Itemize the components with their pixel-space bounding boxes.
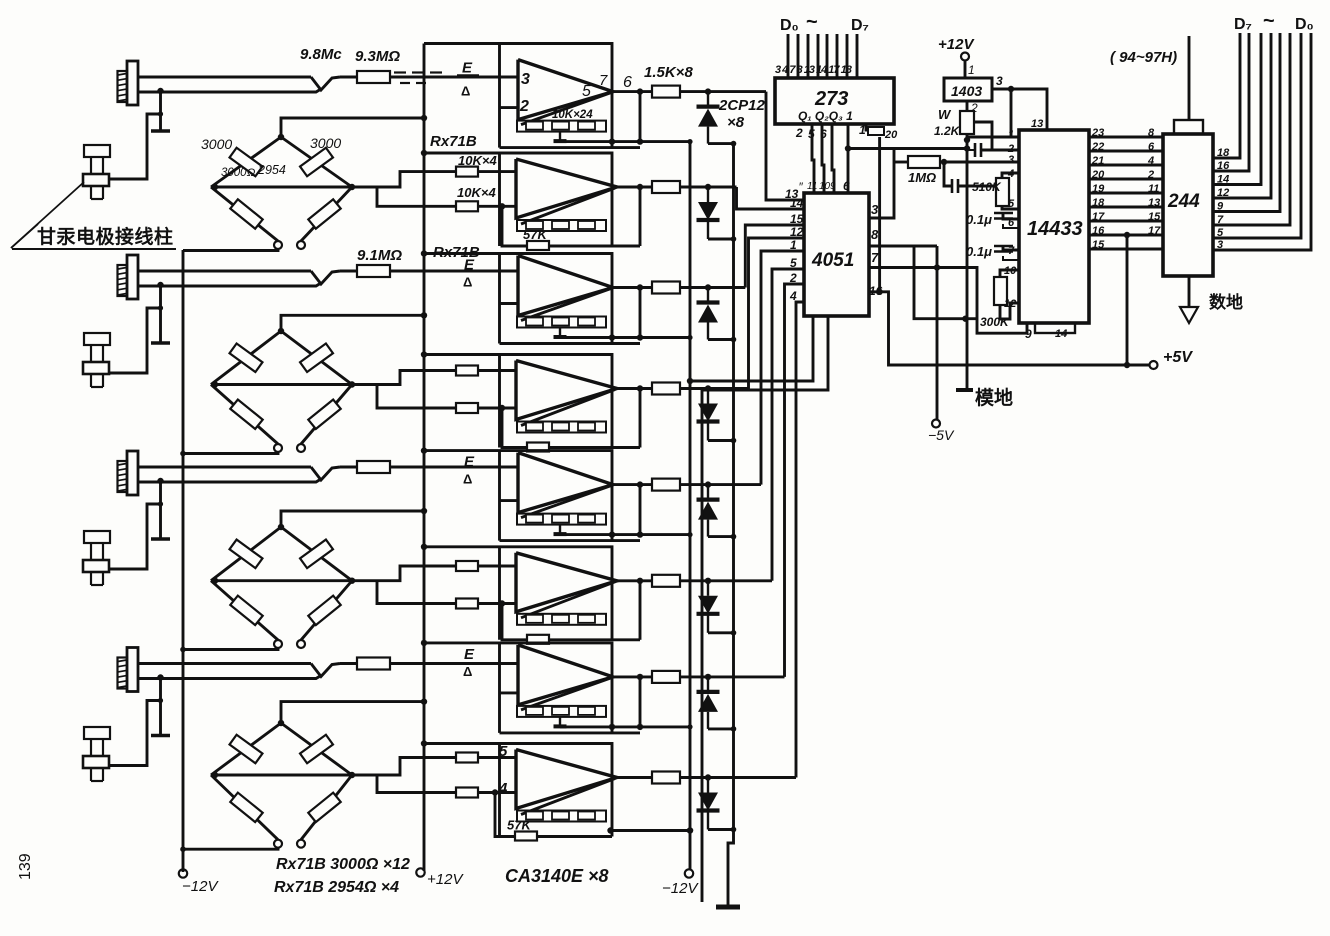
terminal -12V left xyxy=(179,869,187,877)
resistor input row 3 xyxy=(340,466,357,469)
svg-text:12: 12 xyxy=(1217,187,1229,199)
resistor 1.5K U8 xyxy=(652,772,680,784)
svg-text:E: E xyxy=(464,454,475,471)
svg-text:−5V: −5V xyxy=(928,427,955,443)
svg-text:Rx71B: Rx71B xyxy=(433,244,480,261)
svg-text:3: 3 xyxy=(996,74,1003,88)
wire D5 xyxy=(836,34,839,78)
wire 14433 pin 15 to 244 xyxy=(1089,248,1163,251)
op-amp U3 xyxy=(518,256,613,316)
op-amp U4 frame xyxy=(424,355,612,448)
svg-text:10: 10 xyxy=(819,181,831,192)
wire output riser U4 xyxy=(639,389,642,448)
svg-text:17: 17 xyxy=(1148,225,1161,237)
resistor 1.5K U2 xyxy=(652,181,680,193)
svg-text:6: 6 xyxy=(1148,141,1155,153)
svg-text:CA3140E ×8: CA3140E ×8 xyxy=(505,866,609,886)
svg-text:14: 14 xyxy=(1055,328,1067,340)
wire U1 inverting stub xyxy=(500,106,519,109)
ground tap feedback U7 xyxy=(559,717,561,727)
244 enable notch xyxy=(1174,120,1203,134)
diode D7 2CP12 xyxy=(707,677,709,692)
resistor 57K U2 xyxy=(527,241,549,250)
diode D5 2CP12 xyxy=(707,485,709,500)
pointer lines xyxy=(11,182,84,248)
svg-text:1: 1 xyxy=(968,63,975,77)
svg-text:2: 2 xyxy=(1147,169,1154,181)
wire diode to cathode bus U3 xyxy=(708,338,734,341)
svg-text:7: 7 xyxy=(1217,214,1224,226)
wire output to mux U4 xyxy=(680,387,749,390)
wire channel 5 to 4051 xyxy=(761,251,804,485)
wire 14433 pin 18 to 244 xyxy=(1089,206,1163,209)
svg-text:2: 2 xyxy=(789,271,797,285)
wire 244 pin 12 to D4 xyxy=(1213,33,1271,198)
wire crossover xyxy=(311,77,340,90)
resistor 1.5K U4 xyxy=(652,383,680,395)
frame left edge U8 xyxy=(498,744,501,837)
wire crossover xyxy=(311,664,340,677)
wire feedback tap U8 xyxy=(495,793,612,837)
svg-text:D₀: D₀ xyxy=(780,17,799,34)
svg-text:E: E xyxy=(462,60,473,77)
node diode junction U6 xyxy=(705,578,711,584)
svg-text:1.5K×8: 1.5K×8 xyxy=(644,64,693,81)
svg-text:21: 21 xyxy=(1091,155,1104,167)
op-amp U4 xyxy=(516,361,617,420)
svg-text:0.1μ: 0.1μ xyxy=(966,212,992,227)
wire negative rail tie U8 xyxy=(611,829,691,832)
wire channel 2 to 4051 xyxy=(737,187,805,209)
svg-text:10K×4: 10K×4 xyxy=(457,185,496,200)
feedback network U1 xyxy=(517,121,606,132)
svg-text:8: 8 xyxy=(871,227,879,242)
op-amp U1 frame xyxy=(424,44,612,148)
wire left supply bus xyxy=(182,250,185,872)
wire electrode pair top xyxy=(138,662,311,665)
wire apex to feedback U8 xyxy=(521,779,615,815)
wire apex to feedback U3 xyxy=(521,289,611,321)
wire electrode pair top xyxy=(138,76,311,79)
svg-text:Δ: Δ xyxy=(461,84,470,99)
diode D6 2CP12 xyxy=(707,581,709,596)
wire -5V branch xyxy=(936,246,939,419)
svg-text:8: 8 xyxy=(1148,127,1155,139)
reference electrode stem xyxy=(159,678,162,736)
resistor 300K xyxy=(1000,270,1019,277)
reference electrode stem xyxy=(159,91,162,131)
wire 244 pin 14 to D5 xyxy=(1213,33,1261,185)
frame bottom edge U5 xyxy=(500,539,641,542)
wire bridge 1 top to bus xyxy=(281,118,424,137)
resistor 10K input B U8 xyxy=(456,788,478,798)
svg-text:3000: 3000 xyxy=(310,135,341,151)
node diode junction U8 xyxy=(705,774,711,780)
wire 14433 pin 19 to 244 xyxy=(1089,192,1163,195)
svg-text:9.3MΩ: 9.3MΩ xyxy=(355,48,400,65)
svg-text:D₇: D₇ xyxy=(1234,16,1252,33)
svg-text:数地: 数地 xyxy=(1209,292,1243,312)
wire output riser U7 xyxy=(639,677,642,727)
wire output to mux U6 xyxy=(680,579,772,582)
wire negative rail xyxy=(689,143,692,831)
wire output riser U3 xyxy=(639,288,642,338)
wire 14433 pin 21 to 244 xyxy=(1089,164,1163,167)
wire feedback/V- line U5 xyxy=(560,533,690,536)
feedback network U6 xyxy=(517,614,606,625)
node diode junction U2 xyxy=(705,184,711,190)
wire feedback/V- line U7 xyxy=(560,725,690,728)
svg-text:模地: 模地 xyxy=(975,386,1013,409)
resistor 1.5K U7 xyxy=(652,671,680,683)
svg-text:2: 2 xyxy=(519,98,529,115)
resistor 10K input B U4 xyxy=(456,403,478,413)
svg-text:139: 139 xyxy=(17,853,34,880)
jumper pins1-20 273 xyxy=(866,124,868,130)
wire apex to feedback U5 xyxy=(521,486,611,518)
resistor input row 4 xyxy=(340,662,357,665)
svg-text:6: 6 xyxy=(623,74,632,91)
feedback network U4 xyxy=(517,422,606,433)
wire D2 xyxy=(807,34,810,78)
svg-text:510K: 510K xyxy=(972,180,1002,194)
wire 14433 pin 22 to 244 xyxy=(1089,150,1163,153)
frame bottom edge U7 xyxy=(500,731,641,734)
svg-text:3: 3 xyxy=(871,202,879,217)
wire channel 8 to 4051 xyxy=(796,302,804,778)
bridge 3 arm bottom-right xyxy=(301,581,352,640)
svg-text:7: 7 xyxy=(599,72,608,89)
bridge 3 arm bottom-left xyxy=(211,581,278,640)
svg-text:E: E xyxy=(464,646,475,663)
wire D1 xyxy=(797,34,800,78)
bridge 3 arm top-right xyxy=(281,527,352,581)
frame left edge U4 xyxy=(498,355,501,448)
wire feedback/V- line U3 xyxy=(560,336,690,339)
terminal -12V right xyxy=(685,869,693,877)
wire pot bottom xyxy=(966,134,969,390)
svg-text:9.1MΩ: 9.1MΩ xyxy=(357,247,402,264)
svg-text:18: 18 xyxy=(1092,197,1105,209)
wire U7 inverting stub xyxy=(500,691,519,694)
wire diode to cathode bus U8 xyxy=(708,828,734,831)
wire output U2 xyxy=(617,186,652,189)
svg-text:9.8Mc: 9.8Mc xyxy=(300,46,342,63)
wire bridge 4 left socket to supply xyxy=(183,848,278,850)
bridge 1 arm bottom-left xyxy=(211,187,278,241)
wire to binding post xyxy=(108,114,161,179)
diode D2 2CP12 xyxy=(707,187,709,202)
IC 4051 xyxy=(804,193,869,316)
svg-text:17: 17 xyxy=(1092,211,1105,223)
wire channel 3 to 4051 xyxy=(745,225,804,288)
wire electrode pair bottom xyxy=(138,89,321,92)
IC 1403 xyxy=(944,78,992,101)
wire negative rail to terminal xyxy=(689,831,692,870)
op-amp U2 frame xyxy=(424,153,612,246)
capacitor C1 xyxy=(967,149,974,151)
wire diode to cathode bus U4 xyxy=(708,439,734,442)
wire crossover xyxy=(311,467,340,480)
node diode junction U4 xyxy=(705,385,711,391)
svg-text:Rx71B 2954Ω ×4: Rx71B 2954Ω ×4 xyxy=(274,879,399,896)
svg-text:16: 16 xyxy=(1092,225,1105,237)
svg-text:3: 3 xyxy=(1008,154,1014,166)
svg-text:6: 6 xyxy=(1008,217,1015,229)
calomel electrode connector 1 xyxy=(127,61,138,105)
wire diode to cathode bus U1 xyxy=(708,142,734,145)
node diode junction U1 xyxy=(705,88,711,94)
wire 244 pin 3 to D0 xyxy=(1213,33,1311,250)
svg-text:13: 13 xyxy=(1148,197,1160,209)
svg-text:~: ~ xyxy=(806,11,818,33)
svg-text:5: 5 xyxy=(790,256,797,270)
svg-text:Δ: Δ xyxy=(463,275,472,290)
wire output U3 xyxy=(613,286,652,289)
wire Vref branch xyxy=(1010,89,1013,137)
wire output to mux U8 xyxy=(680,776,796,779)
svg-text:6: 6 xyxy=(820,127,827,141)
wire feedback tap U2 xyxy=(502,206,640,246)
feedback network U8 xyxy=(517,811,606,822)
svg-text:20: 20 xyxy=(884,129,898,141)
svg-text:3: 3 xyxy=(1217,239,1223,251)
ground tap feedback U1 xyxy=(559,132,561,142)
svg-text:甘汞电极接线柱: 甘汞电极接线柱 xyxy=(37,225,174,248)
feedback network U2 xyxy=(517,220,606,231)
svg-text:15: 15 xyxy=(1092,239,1105,251)
svg-text:0.1μ: 0.1μ xyxy=(966,244,992,259)
terminal bridge 4 sockets xyxy=(274,840,282,848)
IC 244 xyxy=(1163,134,1213,276)
node diode junction U3 xyxy=(705,284,711,290)
wire electrode pair bottom xyxy=(138,283,321,286)
wire diode to cathode bus U2 xyxy=(708,238,734,241)
resistor input row 2 xyxy=(340,270,357,273)
wire D6 xyxy=(846,34,849,78)
resistor 10K input A U6 xyxy=(456,561,478,571)
svg-text:2954: 2954 xyxy=(257,163,286,177)
wire +12V rail xyxy=(423,44,426,872)
node feedback tap U6 xyxy=(499,600,505,606)
svg-text:14433: 14433 xyxy=(1027,218,1083,240)
frame bottom edge U3 xyxy=(500,342,641,345)
op-amp U1 xyxy=(518,60,613,120)
wire bridge 2 left socket to supply xyxy=(183,452,278,454)
analog ground xyxy=(956,388,973,392)
svg-text:Rx71B 3000Ω ×12: Rx71B 3000Ω ×12 xyxy=(276,856,410,873)
wire output to mux U3 xyxy=(680,286,745,289)
binding post 2 xyxy=(84,333,110,345)
wire output U5 xyxy=(613,483,652,486)
capacitor C2 xyxy=(944,162,951,186)
wire feedback tap U6 xyxy=(502,604,640,640)
wire output U4 xyxy=(617,387,652,390)
wire output to mux U5 xyxy=(680,483,761,486)
wire output U6 xyxy=(617,579,652,582)
wire dashed E sense row1 xyxy=(394,71,406,73)
wire bridge 4 to amp inputs xyxy=(352,758,456,776)
wire output U1 xyxy=(613,90,652,93)
wire 273 pin20 to +5V xyxy=(878,137,881,292)
op-amp U7 frame xyxy=(424,643,612,733)
wire output to mux U1 xyxy=(680,90,766,93)
binding post 4 xyxy=(84,727,110,739)
terminal +5V xyxy=(1150,361,1158,369)
wire apex to feedback U2 xyxy=(521,188,615,224)
calomel electrode connector 4 xyxy=(127,648,138,692)
svg-text:1: 1 xyxy=(1008,129,1014,141)
reference electrode stem xyxy=(159,481,162,539)
resistor 10K input A U2 xyxy=(456,167,478,177)
frame left edge U5 xyxy=(498,451,501,541)
wire channel 7 to 4051 xyxy=(785,284,805,677)
svg-text:18: 18 xyxy=(1217,147,1230,159)
svg-text:11: 11 xyxy=(1148,183,1159,195)
terminal -5V xyxy=(932,420,940,428)
svg-text:10: 10 xyxy=(1004,265,1017,277)
svg-text:2CP12: 2CP12 xyxy=(718,97,766,114)
wire D3 xyxy=(817,34,820,78)
bridge 4 arm bottom-right xyxy=(301,775,352,840)
wire channel 1 to 4051 xyxy=(766,92,804,200)
ground tap feedback U3 xyxy=(559,328,561,338)
resistor 1.5K U5 xyxy=(652,479,680,491)
wire bridge 3 left socket to supply xyxy=(183,648,278,650)
ground tap feedback U5 xyxy=(559,525,561,535)
svg-text:( 94~97H): ( 94~97H) xyxy=(1110,49,1177,66)
svg-text:Δ: Δ xyxy=(463,472,472,487)
svg-text:15: 15 xyxy=(1148,211,1161,223)
wire feedback/V- line U1 xyxy=(560,140,690,143)
diode D8 2CP12 xyxy=(707,778,709,793)
wire to binding post xyxy=(108,308,161,373)
wire bridge 2 chord xyxy=(211,383,352,386)
wire crossover xyxy=(311,271,340,284)
diode D4 2CP12 xyxy=(707,389,709,404)
svg-text:Q₁ Q₂Q₃ 1: Q₁ Q₂Q₃ 1 xyxy=(798,109,853,123)
svg-text:20: 20 xyxy=(1091,169,1105,181)
svg-text:D₀: D₀ xyxy=(1295,16,1314,33)
IC 273 xyxy=(775,78,894,124)
svg-text:3000: 3000 xyxy=(201,136,232,152)
feedback network U3 xyxy=(517,317,606,328)
svg-text:−12V: −12V xyxy=(182,878,219,895)
wire bridge 1 left socket to supply xyxy=(183,249,278,251)
svg-text:D₇: D₇ xyxy=(851,17,869,34)
resistor 1.5K U1 xyxy=(652,86,680,98)
wire bridge 3 chord xyxy=(211,579,352,582)
svg-text:4: 4 xyxy=(789,289,797,303)
op-amp U6 xyxy=(516,553,617,612)
svg-text:+12V: +12V xyxy=(938,36,975,53)
svg-text:5: 5 xyxy=(499,743,508,760)
bridge 2 arm top-right xyxy=(281,331,352,385)
wire 244 pin 9 to D3 xyxy=(1213,33,1280,212)
node feedback tap U2 xyxy=(499,203,505,209)
op-amp U5 xyxy=(518,453,613,513)
svg-text:23: 23 xyxy=(1091,127,1104,139)
wire 14433 pin 20 to 244 xyxy=(1089,178,1163,181)
svg-text:3: 3 xyxy=(521,71,530,88)
wire 14433 pin 16 to 244 xyxy=(1089,234,1163,237)
node diode junction U7 xyxy=(705,674,711,680)
frame left edge U7 xyxy=(498,643,501,733)
wire output to mux U2 xyxy=(680,186,737,189)
svg-text:W: W xyxy=(938,107,952,122)
frame left edge U2 xyxy=(498,153,501,246)
svg-text:273: 273 xyxy=(814,88,848,110)
svg-text:5: 5 xyxy=(582,83,591,100)
op-amp U8 frame xyxy=(424,744,612,837)
wire output U7 xyxy=(613,675,652,678)
wire to binding post xyxy=(108,701,161,766)
wire channel 6 to 4051 xyxy=(772,269,804,581)
wire feedback tap U4 xyxy=(502,408,640,448)
wire bridge 3 to amp inputs xyxy=(352,566,456,581)
resistor 10K input B U6 xyxy=(456,599,478,609)
op-amp U3 frame xyxy=(424,254,612,344)
wire 244 pin 7 to D2 xyxy=(1213,33,1290,225)
wiper xyxy=(974,122,992,149)
node electrode junction xyxy=(157,88,163,94)
svg-text:14: 14 xyxy=(1217,174,1229,186)
resistor 510K xyxy=(1002,173,1019,178)
svg-text:12: 12 xyxy=(1004,298,1016,310)
wire EOC line xyxy=(847,124,850,149)
wire output riser U6 xyxy=(639,581,642,640)
op-amp U5 frame xyxy=(424,451,612,541)
svg-text:4: 4 xyxy=(1007,168,1014,180)
wire 14433 pin 23 to 244 xyxy=(1089,136,1163,139)
wire output riser U1 xyxy=(639,92,642,142)
wire 14433 pin 17 to 244 xyxy=(1089,220,1163,223)
bridge 4 arm top-right xyxy=(281,723,352,775)
bridge 2 arm bottom-left xyxy=(211,385,278,445)
wire apex to feedback U4 xyxy=(521,390,615,426)
wire +5V tap xyxy=(1126,235,1129,365)
svg-text:7: 7 xyxy=(1008,245,1015,257)
node diode junction U5 xyxy=(705,481,711,487)
svg-text:1: 1 xyxy=(790,238,797,252)
feedback network U5 xyxy=(517,514,606,525)
diode D3 2CP12 xyxy=(707,288,709,303)
ground xyxy=(716,905,740,910)
resistor 10K input A U4 xyxy=(456,366,478,376)
bridge 1 arm top-left xyxy=(211,137,281,187)
svg-text:5: 5 xyxy=(1217,227,1224,239)
resistor 1.5K U6 xyxy=(652,575,680,587)
wire U5 inverting stub xyxy=(500,499,519,502)
terminal bridge 3 sockets xyxy=(274,640,282,648)
node feedback tap U8 xyxy=(492,789,498,795)
bridge 1 arm top-right xyxy=(281,137,352,187)
bridge 4 arm top-left xyxy=(211,723,281,775)
svg-text:11: 11 xyxy=(807,181,817,192)
bridge 2 arm bottom-right xyxy=(301,385,352,445)
wire 244 pin 16 to D6 xyxy=(1213,33,1249,171)
svg-text:5: 5 xyxy=(808,127,815,141)
svg-text:3000Ω: 3000Ω xyxy=(221,167,256,179)
svg-text:22: 22 xyxy=(1091,141,1104,153)
wire electrode pair top xyxy=(138,466,311,469)
wire output U8 xyxy=(617,776,652,779)
svg-text:Δ: Δ xyxy=(463,664,472,679)
terminal +12V xyxy=(416,868,424,876)
bridge 2 arm top-left xyxy=(211,331,281,385)
resistor 57K U6 xyxy=(527,635,549,644)
svg-text:10K×24: 10K×24 xyxy=(552,109,593,121)
